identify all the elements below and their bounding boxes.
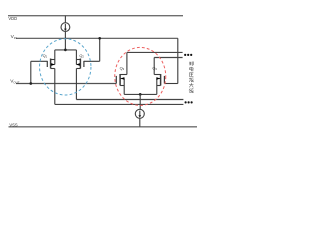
svg-text:VDD: VDD (8, 16, 17, 21)
svg-text:VSS: VSS (9, 122, 17, 127)
